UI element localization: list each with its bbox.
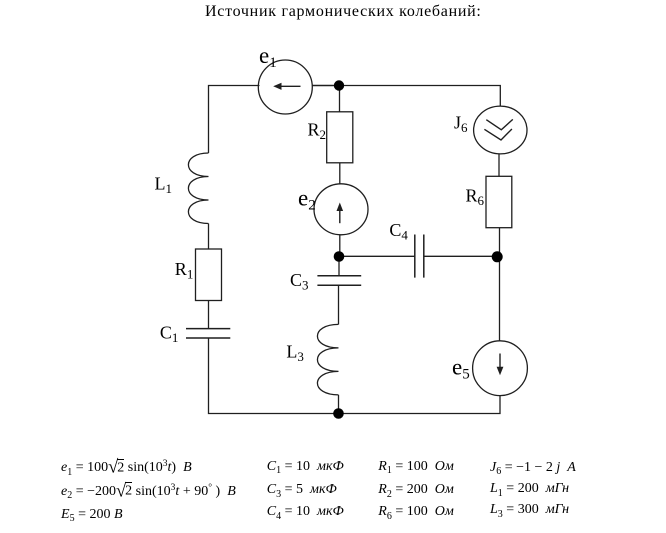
- wire e2 to mid junction: [339, 235, 341, 257]
- equation J6: [490, 461, 576, 475]
- wire C1 down and bottom-left run: [209, 338, 339, 414]
- wire mid junction to C4: [339, 255, 415, 257]
- arrow of e1 (points left): [281, 85, 301, 87]
- wire J6 top to top-right corner to top junction: [339, 86, 500, 107]
- svg-text:R6: R6: [466, 186, 485, 209]
- source e2: [314, 184, 368, 235]
- node: right junction dot: [492, 251, 503, 262]
- source e5: [473, 341, 528, 396]
- wire R6 to J6: [498, 154, 500, 176]
- equation L3: [490, 503, 569, 517]
- wire R1 to C1: [208, 301, 210, 329]
- svg-text:C3: C3: [290, 270, 309, 293]
- wire top junction down to R2: [339, 86, 341, 112]
- svg-text:R1: R1: [175, 259, 194, 282]
- svg-text:e2: e2: [298, 185, 316, 213]
- resistor R6: [486, 176, 512, 227]
- svg-text:C1: C1: [160, 322, 179, 345]
- equation R6: [378, 505, 454, 519]
- capacitor C4: [415, 235, 424, 278]
- equation R1: [378, 460, 454, 474]
- chevron 1 of J6: [486, 119, 513, 129]
- equation R2: [378, 483, 454, 497]
- svg-text:e1: e1: [259, 43, 277, 71]
- arrow of e5 (points down): [499, 354, 501, 368]
- equation C4: [267, 505, 344, 519]
- source J6: [474, 106, 527, 154]
- node: mid junction dot: [334, 251, 345, 262]
- capacitor C1: [186, 329, 230, 338]
- equation e2: [61, 485, 236, 499]
- node: top junction dot: [334, 80, 344, 90]
- wire L1 to R1: [208, 224, 210, 250]
- title: [205, 3, 482, 21]
- wire e5 to right junction: [499, 257, 501, 341]
- wire C3 to L3: [338, 285, 340, 324]
- chevron 2 of J6: [484, 129, 512, 140]
- svg-text:C4: C4: [389, 220, 408, 243]
- capacitor C3: [317, 276, 361, 286]
- svg-text:J6: J6: [454, 113, 468, 136]
- wire bottom-right run up to e5: [339, 396, 501, 414]
- equation e1: [61, 461, 192, 475]
- wire L3 to bottom junction: [338, 395, 340, 414]
- equation L1: [490, 482, 569, 496]
- wire R2 to e2: [339, 163, 341, 184]
- svg-text:L3: L3: [286, 342, 304, 365]
- svg-text:e5: e5: [452, 355, 470, 383]
- equation C3: [267, 483, 337, 497]
- node: bottom junction dot: [333, 408, 344, 419]
- inductor L3: [317, 324, 338, 395]
- wire mid junction to C3: [338, 257, 340, 276]
- inductor L1: [188, 153, 208, 224]
- wire right junction to R6: [499, 228, 501, 257]
- resistor R2: [327, 112, 353, 163]
- svg-text:R2: R2: [308, 120, 327, 143]
- svg-text:L1: L1: [155, 173, 173, 196]
- wire top-left from e1 to left corner down to L1: [209, 86, 260, 154]
- source e1: [258, 60, 312, 114]
- wire e1 to top junction: [312, 85, 339, 87]
- wire C4 to right junction: [424, 255, 500, 257]
- equation C1: [267, 460, 344, 474]
- arrow of e2 (points up): [339, 210, 341, 224]
- resistor R1: [196, 249, 222, 301]
- equation E5: [61, 508, 123, 522]
